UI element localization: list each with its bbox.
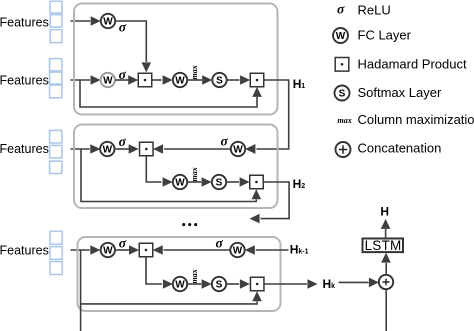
legend fc layer symbol [333,28,348,43]
svg-text:max: max [190,269,199,283]
node Hk-1 label [290,243,309,257]
node H2 label [293,177,306,191]
wire LSTM up to H [381,219,391,239]
legend relu symbol [337,2,345,17]
wire Hk out [264,279,318,289]
svg-text:σ: σ [119,20,127,35]
softmax layer S b2 [212,175,226,189]
hadamard product b1-1 [138,73,152,87]
svg-text:W: W [233,144,243,155]
softmax layer S b3 [212,277,226,291]
legend relu text [358,2,391,17]
svg-text:2: 2 [301,183,305,190]
fc layer W3r block3 right [230,243,244,257]
hadamard product b1-2 [250,73,264,87]
svg-text:Softmax Layer: Softmax Layer [358,85,442,100]
svg-text:H: H [380,205,389,219]
wire right W into hadamard b3-1 [153,245,231,255]
hadamard product b3-1 [139,243,153,257]
fc layer W1a block1 top [101,14,115,28]
wire W1b to hadamard b1-1 [115,75,138,85]
legend hadamard text [358,56,467,71]
svg-text:Hadamard Product: Hadamard Product [358,56,467,71]
fc layer W2 block1 [173,73,187,87]
wire W3a to hadamard b3-1 [115,245,139,255]
legend hadamard symbol [335,58,349,72]
wire concatenation up to LSTM [381,253,391,275]
svg-text:max: max [190,167,199,181]
LSTM box [363,238,404,253]
hadamard product b2-1 [140,142,154,156]
svg-text:W: W [233,245,243,256]
svg-text:S: S [216,280,223,291]
legend column maximization text [358,112,474,127]
svg-text:W: W [175,177,185,188]
svg-text:W: W [175,279,185,290]
column maximization label b2 [190,167,199,181]
svg-text:max: max [190,65,199,79]
fc layer W3b block3 row2 [173,277,187,291]
legend softmax text [358,85,442,100]
feature vector squares 3 [50,130,62,173]
svg-text:S: S [339,89,346,100]
relu sigma block1 row2 [119,67,127,82]
svg-text:W: W [103,245,113,256]
svg-text:W: W [103,144,113,155]
bypass wire b2 [81,149,261,202]
arrow into W2r [245,144,255,154]
feature vector squares 1 [50,1,62,42]
svg-text:H: H [290,243,299,257]
relu sigma block3 right [216,236,224,251]
svg-text:H: H [293,177,302,191]
svg-text:H: H [323,277,332,291]
svg-text:k: k [331,283,335,290]
fc layer W2b block2 row2 [173,175,187,189]
svg-text:W: W [175,75,185,86]
features label 2 [0,74,49,88]
wire Hk to concatenation [339,278,379,288]
svg-text:1: 1 [301,83,305,90]
legend max symbol [338,116,352,125]
wire W2b to softmax b2 [187,177,211,187]
wire features1 input [71,16,101,26]
relu sigma block3 left [119,235,127,250]
wire features4 input [71,245,101,255]
relu sigma block1 top [119,20,127,35]
bypass and feed-down wire b3 [81,250,262,331]
column maximization label b1 [190,65,199,79]
wire W3b to softmax b3 [187,279,211,289]
svg-text:Column maximization: Column maximization [358,112,474,127]
svg-text:σ: σ [119,235,127,250]
svg-text:ReLU: ReLU [358,2,391,17]
node H1 label [293,77,306,91]
svg-text:H: H [293,77,302,91]
node Hk label [323,277,336,291]
fc layer W3a block3 left [101,243,115,257]
legend fc layer text [358,27,412,42]
svg-text:Concatenation: Concatenation [358,140,442,155]
svg-text:W: W [103,16,113,27]
hadamard product b2-2 [250,175,264,189]
wire W1a down to hadamard b1-1 [115,21,151,72]
svg-text:σ: σ [337,2,345,17]
wire softmax to hadamard b2-2 [226,177,249,187]
svg-text:σ: σ [221,133,229,148]
wire W2a to hadamard b2-1 [115,144,139,154]
fc layer W1b block1 row2 gray [101,73,115,87]
concatenation node [379,275,393,289]
svg-text:k-1: k-1 [298,249,308,256]
wire H1 out down into block2 right W [245,80,288,154]
svg-text:Features: Features [0,243,49,257]
ellipsis dots [182,223,197,226]
wire features2 input [71,75,101,85]
softmax layer S b1 [212,73,226,87]
svg-text:Features: Features [0,16,49,30]
block 1 rounded frame [74,4,278,115]
features label 4 [0,243,49,257]
wire hadamard b1-1 to W2 [152,75,173,85]
fc layer W2a block2 left [100,142,114,156]
svg-text:W: W [336,31,346,42]
block 3 rounded frame [78,237,281,311]
wire hadamard b2-1 down to row2 [146,156,172,187]
features label 3 [0,142,49,156]
column maximization label b3 [190,269,199,283]
hadamard product b3-2 [250,277,264,291]
wire softmax to hadamard b1-2 [227,75,250,85]
svg-text:Features: Features [0,74,49,88]
svg-text:max: max [338,116,352,125]
block 2 rounded frame [74,125,278,209]
wire features3 input [71,144,101,154]
wire hadamard b3-1 down to row2 [146,257,173,289]
relu sigma block2 right [221,133,229,148]
wire H2 out down and left arrow [250,182,290,223]
legend concatenation text [358,140,442,155]
svg-text:LSTM: LSTM [365,238,402,253]
wire right W into hadamard b2-1 [153,144,231,154]
wire below concatenation [385,289,387,331]
svg-text:S: S [216,178,223,189]
wire softmax to hadamard b3-2 [226,279,250,289]
svg-text:W: W [103,75,113,86]
svg-text:FC Layer: FC Layer [358,27,412,42]
svg-text:σ: σ [119,134,127,149]
legend softmax symbol [335,86,350,101]
wire W2 to softmax b1 [187,75,212,85]
bypass wire b1 [80,80,262,107]
feature vector squares 2 [50,59,62,98]
output H label [380,205,389,219]
wire Hk-1 into W3r [245,245,289,255]
features label 1 [0,16,49,30]
svg-text:Features: Features [0,142,49,156]
svg-text:S: S [216,76,223,87]
fc layer W2r block2 right [231,142,245,156]
svg-text:σ: σ [216,236,224,251]
feature vector squares 4 [50,231,62,274]
relu sigma block2 left [119,134,127,149]
legend concatenation symbol [336,142,351,157]
